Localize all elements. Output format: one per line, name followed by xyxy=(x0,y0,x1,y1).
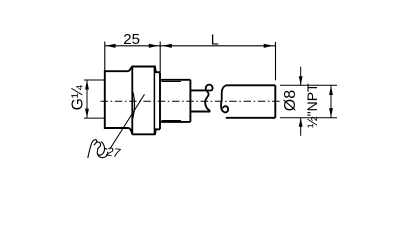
arrow G bottom xyxy=(85,109,89,119)
break line right xyxy=(221,86,228,113)
collar end face xyxy=(189,80,191,122)
svg-text:G¼: G¼ xyxy=(70,84,87,110)
arrow L left xyxy=(162,44,172,48)
svg-text:27: 27 xyxy=(105,144,123,160)
dimension line G1/4 xyxy=(86,80,88,118)
collar top edge xyxy=(160,79,190,81)
extension line left (x=104.8) xyxy=(104,42,106,72)
neck bottom edge xyxy=(190,111,210,113)
centerline xyxy=(101,100,281,102)
arrow D8 top xyxy=(299,76,303,85)
dimension line NPT xyxy=(330,85,332,118)
extension line right (x=275.5) xyxy=(275,42,277,80)
collar bottom edge xyxy=(160,121,190,123)
hex face line left xyxy=(131,67,133,135)
dimension line D8 lower xyxy=(300,118,302,136)
extension line G bottom xyxy=(84,117,105,119)
arrow 25 left xyxy=(106,44,116,48)
arrow L right xyxy=(264,44,274,48)
neck top edge xyxy=(190,89,209,91)
wrench symbol xyxy=(88,140,108,158)
svg-text:25: 25 xyxy=(123,31,140,48)
extension line NPT bottom xyxy=(280,117,337,119)
hex face arc xyxy=(133,92,135,118)
thread boss block xyxy=(105,71,129,128)
extension line middle (x=160.2) xyxy=(159,42,161,73)
hex outline xyxy=(129,67,160,135)
hex face line right xyxy=(153,67,155,135)
leader line to 27 xyxy=(110,94,145,149)
tube bottom edge xyxy=(226,117,275,119)
extension line G top xyxy=(84,79,105,81)
extension line NPT top xyxy=(280,84,337,86)
arrow D8 bottom xyxy=(299,118,303,127)
svg-text:L: L xyxy=(211,32,219,48)
collar thread line top xyxy=(162,81,182,83)
svg-text:Ø8: Ø8 xyxy=(282,90,299,111)
dimension line 25 / L xyxy=(105,45,276,47)
svg-text:½"NPT: ½"NPT xyxy=(304,83,320,128)
arrow G top xyxy=(85,80,89,90)
arrow NPT bottom xyxy=(329,108,333,118)
arrow NPT top xyxy=(329,86,333,96)
arrow 25 right xyxy=(149,44,159,48)
break line left xyxy=(205,85,212,112)
tube end face xyxy=(274,85,276,118)
tube top edge xyxy=(226,84,276,86)
dimension line D8 upper xyxy=(300,67,302,86)
collar thread line bottom xyxy=(162,120,182,122)
